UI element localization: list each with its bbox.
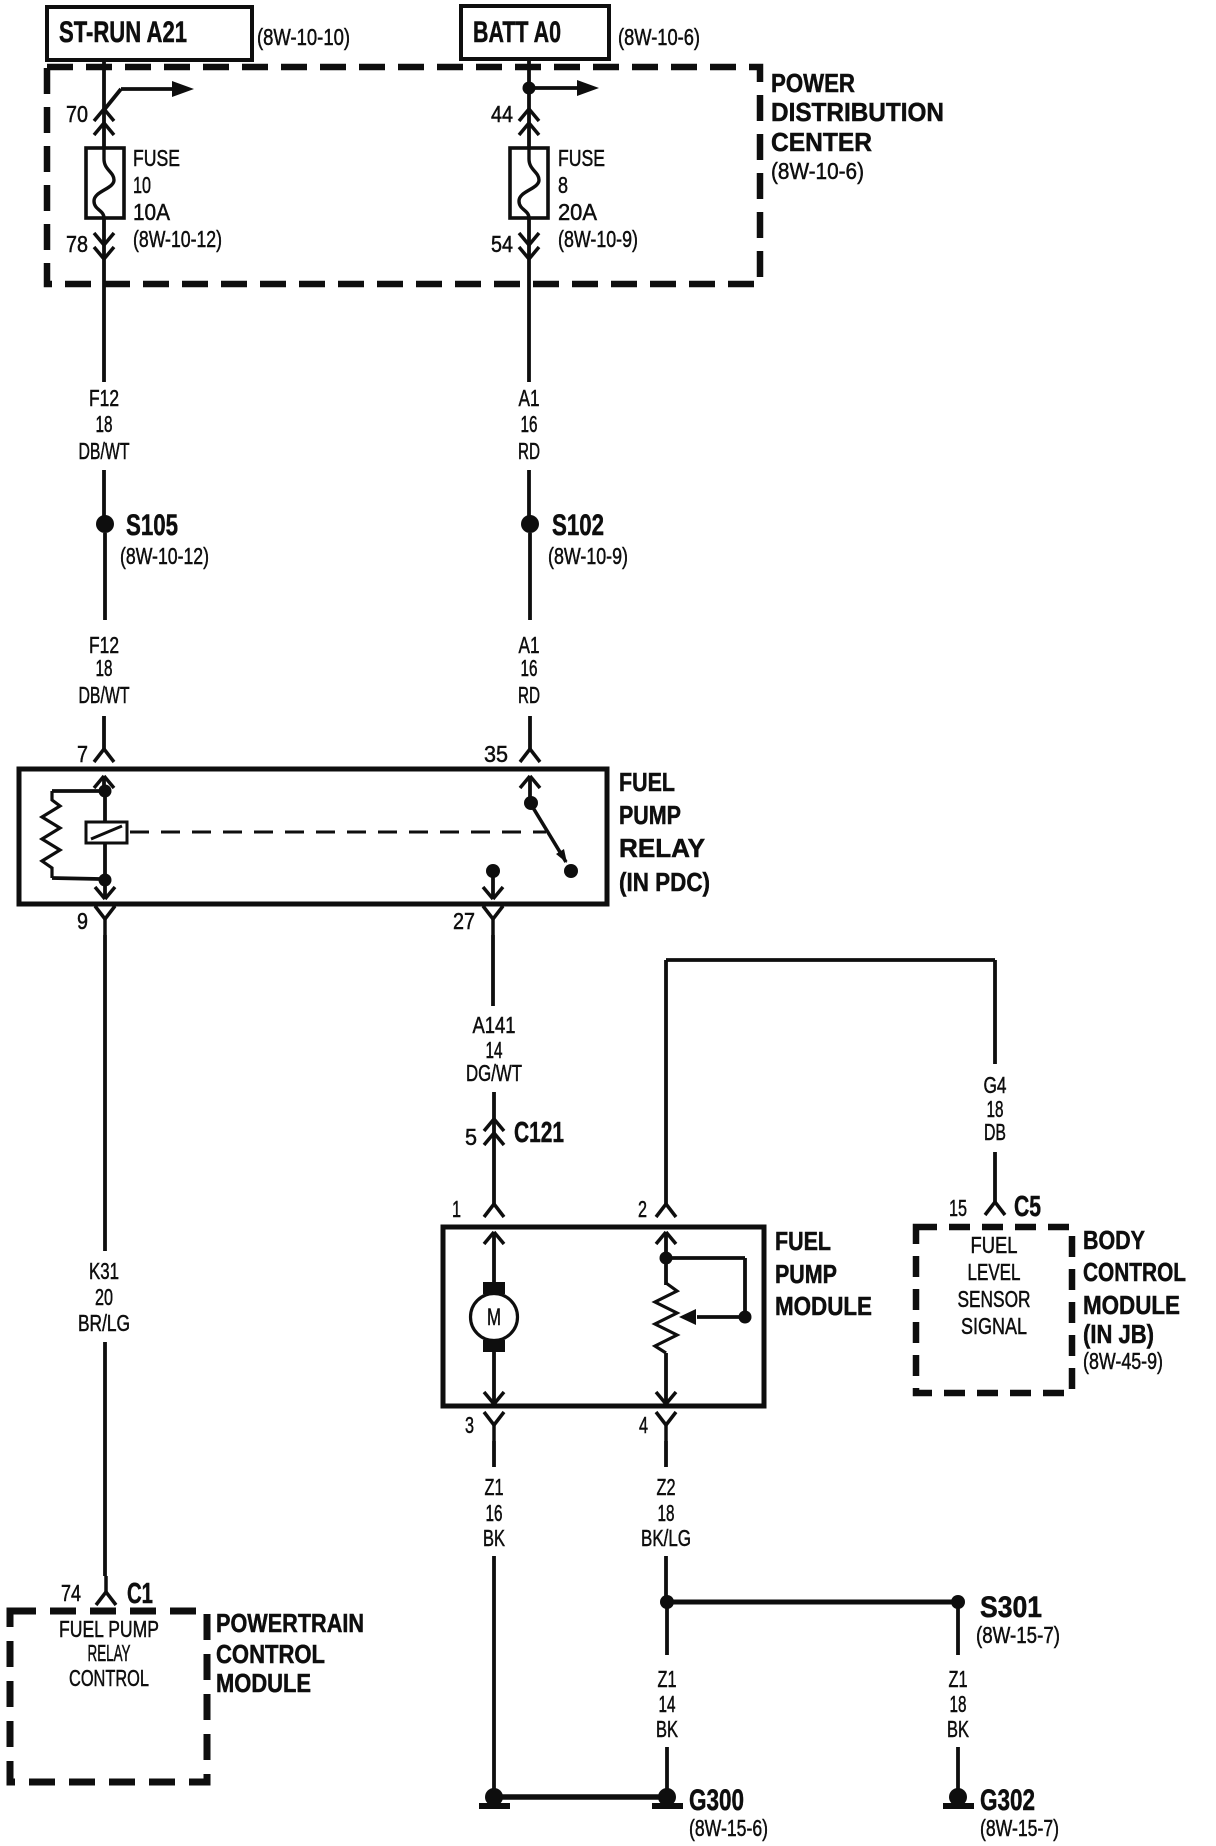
svg-text:44: 44 — [491, 101, 513, 127]
svg-text:(8W-10-6): (8W-10-6) — [771, 158, 864, 184]
connector module pin 3 fork — [484, 1412, 504, 1441]
wire sender to pin 4 — [664, 1353, 668, 1404]
ground G300 left terminal — [479, 1788, 510, 1806]
svg-text:BK: BK — [947, 1716, 969, 1742]
svg-text:CONTROL: CONTROL — [1083, 1257, 1186, 1287]
svg-text:RELAY: RELAY — [619, 833, 705, 863]
pin 3 label — [465, 1412, 474, 1438]
connector 44 double chevron — [519, 109, 539, 135]
svg-text:MODULE: MODULE — [1083, 1290, 1180, 1320]
node ST-RUN A21 feed box — [47, 7, 252, 60]
svg-text:(8W-10-12): (8W-10-12) — [133, 226, 222, 252]
svg-text:(8W-10-6): (8W-10-6) — [618, 24, 700, 50]
wire label F12 18 DB/WT (lower) — [79, 632, 130, 708]
connector module pin 2 fork — [656, 1204, 676, 1217]
svg-text:(8W-15-7): (8W-15-7) — [976, 1622, 1060, 1648]
svg-text:M: M — [487, 1304, 501, 1331]
connector C5 fork — [985, 1202, 1005, 1215]
svg-text:FUEL: FUEL — [775, 1226, 831, 1256]
svg-text:10: 10 — [133, 172, 151, 198]
connector module pin 4 chevron — [656, 1392, 676, 1404]
wiper arrow into resistor — [679, 1309, 745, 1325]
splice S105 — [96, 515, 114, 533]
svg-text:PUMP: PUMP — [775, 1259, 837, 1289]
switch output contact dot — [486, 864, 500, 878]
connector 78 double chevron — [94, 233, 114, 259]
svg-text:FUEL: FUEL — [971, 1232, 1018, 1258]
svg-text:16: 16 — [521, 411, 538, 437]
connector C121 double chevron — [484, 1119, 504, 1145]
svg-text:14: 14 — [659, 1691, 676, 1717]
svg-text:C5: C5 — [1014, 1191, 1041, 1223]
wire Z1 pin3 lower segment — [492, 1556, 496, 1790]
svg-text:FUEL: FUEL — [619, 767, 675, 797]
connector pin 7 chevron inside relay — [94, 776, 114, 788]
ground G300 — [652, 1788, 683, 1806]
wire Z1 14 lower segment — [665, 1747, 669, 1790]
pin 9 label — [77, 908, 88, 934]
wire label Z1 18 BK — [947, 1666, 969, 1742]
fuse 10 element — [94, 148, 114, 218]
fuse 8 element — [519, 148, 539, 218]
wire branch horizontal to BCM — [666, 958, 995, 962]
svg-text:18: 18 — [96, 655, 113, 681]
wire Z1 pin3 upper segment — [492, 1441, 496, 1467]
svg-text:DISTRIBUTION: DISTRIBUTION — [771, 97, 944, 127]
svg-text:15: 15 — [949, 1195, 967, 1221]
wire label A1 16 RD (upper) — [518, 385, 540, 464]
svg-text:78: 78 — [66, 231, 88, 257]
svg-text:9: 9 — [77, 908, 88, 934]
wire Z1 18 upper segment — [956, 1608, 960, 1655]
svg-text:(8W-45-9): (8W-45-9) — [1083, 1348, 1163, 1374]
connector pin 35 chevron inside relay — [520, 776, 540, 788]
wire splice S301 horizontal — [667, 1600, 958, 1605]
arrow to other circuits (left) — [121, 81, 194, 97]
svg-text:18: 18 — [96, 411, 113, 437]
fuel pump motor M1 — [471, 1282, 518, 1352]
svg-text:10A: 10A — [133, 199, 171, 225]
pin 74 label — [61, 1580, 81, 1606]
connector module pin 1 chevron — [484, 1232, 504, 1244]
svg-text:27: 27 — [453, 908, 475, 934]
pin 70 label — [66, 101, 88, 127]
wire pin 1 to motor — [492, 1232, 496, 1284]
svg-text:MODULE: MODULE — [216, 1668, 311, 1698]
svg-text:A1: A1 — [519, 385, 540, 411]
wire G4 lower segment — [993, 1152, 997, 1202]
fuel level sensor signal label — [958, 1232, 1031, 1339]
powertrain control module label — [216, 1608, 364, 1698]
splice S301 junction dot — [660, 1595, 674, 1609]
svg-text:POWER: POWER — [771, 68, 855, 98]
connector pin 27 chevron inside relay — [483, 887, 503, 899]
connector pin 27 fork — [483, 906, 503, 935]
svg-text:DB/WT: DB/WT — [79, 438, 130, 464]
svg-text:Z1: Z1 — [485, 1474, 504, 1500]
svg-text:S105: S105 — [126, 509, 178, 542]
wire pin 2 to sender — [664, 1232, 668, 1285]
svg-text:CENTER: CENTER — [771, 127, 872, 157]
svg-text:2: 2 — [638, 1196, 647, 1222]
svg-text:RD: RD — [518, 682, 540, 708]
wire Z2 pin4 upper segment — [664, 1441, 668, 1467]
svg-text:CONTROL: CONTROL — [69, 1665, 149, 1691]
fuel pump relay control label — [59, 1616, 159, 1691]
svg-text:S301: S301 — [980, 1591, 1042, 1624]
connector pin 7 fork — [94, 749, 114, 762]
wire coil bottom horizontal — [52, 878, 100, 879]
wire label F12 18 DB/WT (upper) — [79, 385, 130, 464]
wire into splice S102 — [527, 470, 531, 516]
pin 2 label — [638, 1196, 647, 1222]
junction dot sender wiper tap — [660, 1252, 673, 1265]
pin 4 label — [639, 1412, 648, 1438]
power distribution center label — [771, 68, 944, 184]
wire to relay pin 9 — [103, 880, 107, 899]
pin 35 label — [484, 741, 508, 767]
svg-text:G300: G300 — [689, 1784, 744, 1817]
pin 27 label — [453, 908, 475, 934]
wire label A1 16 RD (lower) — [518, 632, 540, 708]
svg-text:G302: G302 — [980, 1784, 1035, 1817]
svg-text:20: 20 — [95, 1284, 113, 1310]
connector pin 35 fork — [520, 749, 540, 762]
splice S301 label — [976, 1591, 1060, 1648]
svg-text:BATT A0: BATT A0 — [473, 16, 561, 49]
svg-text:8: 8 — [558, 172, 568, 198]
fuel pump relay box — [19, 769, 607, 904]
wire label Z1 14 BK — [656, 1666, 678, 1742]
pin 15 label — [949, 1195, 967, 1221]
pin 44 label — [491, 101, 513, 127]
svg-text:RELAY: RELAY — [88, 1640, 131, 1666]
fuel pump module box — [443, 1227, 764, 1406]
pin 1 label — [452, 1196, 461, 1222]
svg-text:FUSE: FUSE — [558, 145, 605, 171]
connector C1 label — [127, 1578, 153, 1610]
ground G300 label — [689, 1784, 768, 1841]
wire Z1 18 lower segment — [956, 1747, 960, 1790]
wire pin 35 to switch contact — [528, 776, 532, 800]
wire fuse 10 to PDC border — [102, 218, 106, 284]
wire A1 upper segment — [527, 284, 531, 382]
pin 78 label — [66, 231, 88, 257]
arrow to other circuits (right) — [529, 80, 599, 96]
wire module pin 2 vertical — [664, 960, 668, 1204]
svg-text:(8W-10-12): (8W-10-12) — [120, 543, 209, 569]
switch common contact dot — [524, 796, 538, 810]
wire label Z2 18 BK/LG — [641, 1474, 691, 1551]
fuse 10 value labels — [133, 145, 222, 252]
svg-text:(8W-15-6): (8W-15-6) — [689, 1815, 768, 1841]
powertrain control module dashed box — [10, 1611, 207, 1782]
splice S102 — [521, 515, 539, 533]
svg-text:BK/LG: BK/LG — [641, 1525, 691, 1551]
svg-text:3: 3 — [465, 1412, 474, 1438]
pin 7 label — [77, 741, 88, 767]
svg-text:(IN PDC): (IN PDC) — [619, 867, 710, 897]
svg-text:C121: C121 — [514, 1117, 564, 1149]
svg-text:16: 16 — [486, 1500, 503, 1526]
wire branch diagonal to other circuits — [104, 89, 121, 110]
switch throw contact dot — [564, 864, 578, 878]
svg-text:(8W-15-7): (8W-15-7) — [980, 1815, 1059, 1841]
svg-text:54: 54 — [491, 231, 513, 257]
svg-text:SIGNAL: SIGNAL — [961, 1313, 1027, 1339]
wire A141 through C121 — [492, 1092, 496, 1204]
reference label (8W-10-6) — [618, 24, 700, 50]
connector 54 double chevron — [519, 233, 539, 259]
body control module dashed box — [916, 1227, 1072, 1393]
wire armature to bottom junction — [103, 843, 107, 880]
svg-text:POWERTRAIN: POWERTRAIN — [216, 1608, 364, 1638]
connector C121 label — [514, 1117, 564, 1149]
connector pin 9 fork — [95, 906, 115, 935]
svg-text:SENSOR: SENSOR — [958, 1286, 1031, 1312]
svg-text:DB: DB — [984, 1119, 1006, 1145]
connector 70 double chevron — [94, 109, 114, 135]
svg-text:RD: RD — [518, 438, 540, 464]
wire Z1 14 upper segment — [665, 1608, 669, 1655]
svg-text:ST-RUN A21: ST-RUN A21 — [59, 16, 187, 49]
wire label K31 20 BR/LG — [78, 1258, 130, 1336]
wire label A141 14 DG/WT — [466, 1012, 522, 1086]
power distribution center dashed box — [47, 67, 760, 284]
svg-text:(8W-10-10): (8W-10-10) — [257, 24, 350, 50]
svg-text:G4: G4 — [984, 1072, 1007, 1098]
svg-text:LEVEL: LEVEL — [968, 1259, 1021, 1285]
connector module pin 1 fork — [484, 1204, 504, 1217]
wire K31 upper segment — [103, 935, 107, 1251]
relay mechanical dashed link — [130, 831, 546, 834]
wire pin 7 to coil junction — [102, 776, 106, 791]
connector module pin 3 chevron — [484, 1392, 504, 1404]
svg-text:Z2: Z2 — [657, 1474, 676, 1500]
relay coil winding zigzag — [42, 791, 60, 878]
svg-text:PUMP: PUMP — [619, 800, 681, 830]
svg-text:FUSE: FUSE — [133, 145, 180, 171]
splice S102 label — [548, 509, 628, 569]
pin 5 label — [465, 1124, 477, 1150]
svg-text:18: 18 — [658, 1500, 675, 1526]
junction dot coil top — [99, 785, 112, 798]
svg-text:70: 70 — [66, 101, 88, 127]
wire coil vertical — [103, 791, 107, 822]
fuel pump relay label — [619, 767, 710, 897]
svg-text:DG/WT: DG/WT — [466, 1060, 522, 1086]
svg-text:7: 7 — [77, 741, 88, 767]
wire S102 down — [528, 533, 532, 620]
fuse 8 value labels — [558, 145, 638, 252]
wire to relay pin 35 — [528, 716, 532, 749]
wire switch output down — [491, 871, 495, 899]
svg-text:(8W-10-9): (8W-10-9) — [558, 226, 638, 252]
connector C1 fork — [96, 1576, 116, 1605]
pin 54 label — [491, 231, 513, 257]
svg-text:(8W-10-9): (8W-10-9) — [548, 543, 628, 569]
svg-text:BR/LG: BR/LG — [78, 1310, 130, 1336]
svg-text:CONTROL: CONTROL — [216, 1639, 325, 1669]
wire ST-RUN A21 down into PDC — [102, 60, 106, 148]
svg-text:F12: F12 — [89, 385, 119, 411]
connector module pin 2 chevron — [656, 1232, 676, 1244]
svg-text:A141: A141 — [473, 1012, 516, 1038]
ground G302 label — [980, 1784, 1059, 1841]
fuse 8 body — [510, 148, 548, 218]
connector C5 label — [1014, 1191, 1041, 1223]
svg-text:BK: BK — [656, 1716, 678, 1742]
svg-text:BODY: BODY — [1083, 1225, 1145, 1255]
svg-text:Z1: Z1 — [658, 1666, 677, 1692]
svg-text:1: 1 — [452, 1196, 461, 1222]
connector pin 9 chevron inside relay — [95, 887, 115, 899]
wire BATT A0 down into PDC — [527, 59, 531, 148]
svg-text:MODULE: MODULE — [775, 1291, 872, 1321]
wire into splice S105 — [102, 470, 106, 516]
wire motor to pin 3 — [492, 1352, 496, 1404]
svg-text:35: 35 — [484, 741, 508, 767]
node BATT A0 feed box — [461, 6, 609, 59]
wire fuse 8 to PDC border — [527, 218, 531, 284]
svg-text:16: 16 — [521, 655, 538, 681]
splice S301 dot — [951, 1595, 965, 1609]
svg-text:5: 5 — [465, 1124, 477, 1150]
wire G4 upper segment — [993, 960, 997, 1064]
svg-text:4: 4 — [639, 1412, 648, 1438]
wire ground link G300 — [494, 1794, 667, 1800]
reference label (8W-10-10) — [257, 24, 350, 50]
wire A141 upper segment — [491, 935, 495, 1006]
relay armature box — [86, 822, 127, 843]
fuse 10 body — [86, 148, 124, 218]
wire F12 upper segment — [102, 284, 106, 382]
svg-text:BK: BK — [483, 1525, 505, 1551]
wire label G4 18 DB — [984, 1072, 1007, 1145]
svg-text:C1: C1 — [127, 1578, 153, 1610]
svg-text:S102: S102 — [552, 509, 604, 542]
junction dot coil bottom — [99, 874, 112, 887]
svg-text:Z1: Z1 — [949, 1666, 968, 1692]
fuel pump module label — [775, 1226, 872, 1321]
connector module pin 4 fork — [656, 1412, 676, 1441]
wire wiper vertical — [743, 1258, 747, 1317]
svg-text:20A: 20A — [558, 199, 598, 225]
svg-text:K31: K31 — [89, 1258, 119, 1284]
svg-text:18: 18 — [950, 1691, 967, 1717]
body control module label — [1083, 1225, 1186, 1374]
relay switch blade — [532, 806, 567, 863]
wire Z2 to splice S301 — [664, 1556, 668, 1598]
svg-text:(IN JB): (IN JB) — [1083, 1319, 1154, 1349]
splice S105 label — [120, 509, 209, 569]
wire wiper tap horizontal — [666, 1256, 745, 1260]
wire coil top horizontal — [52, 789, 100, 793]
wire to relay pin 7 — [102, 716, 106, 749]
wire label Z1 16 BK — [483, 1474, 505, 1551]
svg-text:FUEL PUMP: FUEL PUMP — [59, 1616, 159, 1642]
fuel level sender resistor — [655, 1283, 677, 1353]
svg-text:74: 74 — [61, 1580, 81, 1606]
junction dot wiper — [739, 1311, 752, 1324]
svg-text:DB/WT: DB/WT — [79, 682, 130, 708]
junction dot BATT feed — [523, 82, 536, 95]
wire K31 lower segment — [103, 1342, 107, 1576]
wire S105 down — [103, 533, 107, 620]
ground G302 — [943, 1788, 974, 1806]
